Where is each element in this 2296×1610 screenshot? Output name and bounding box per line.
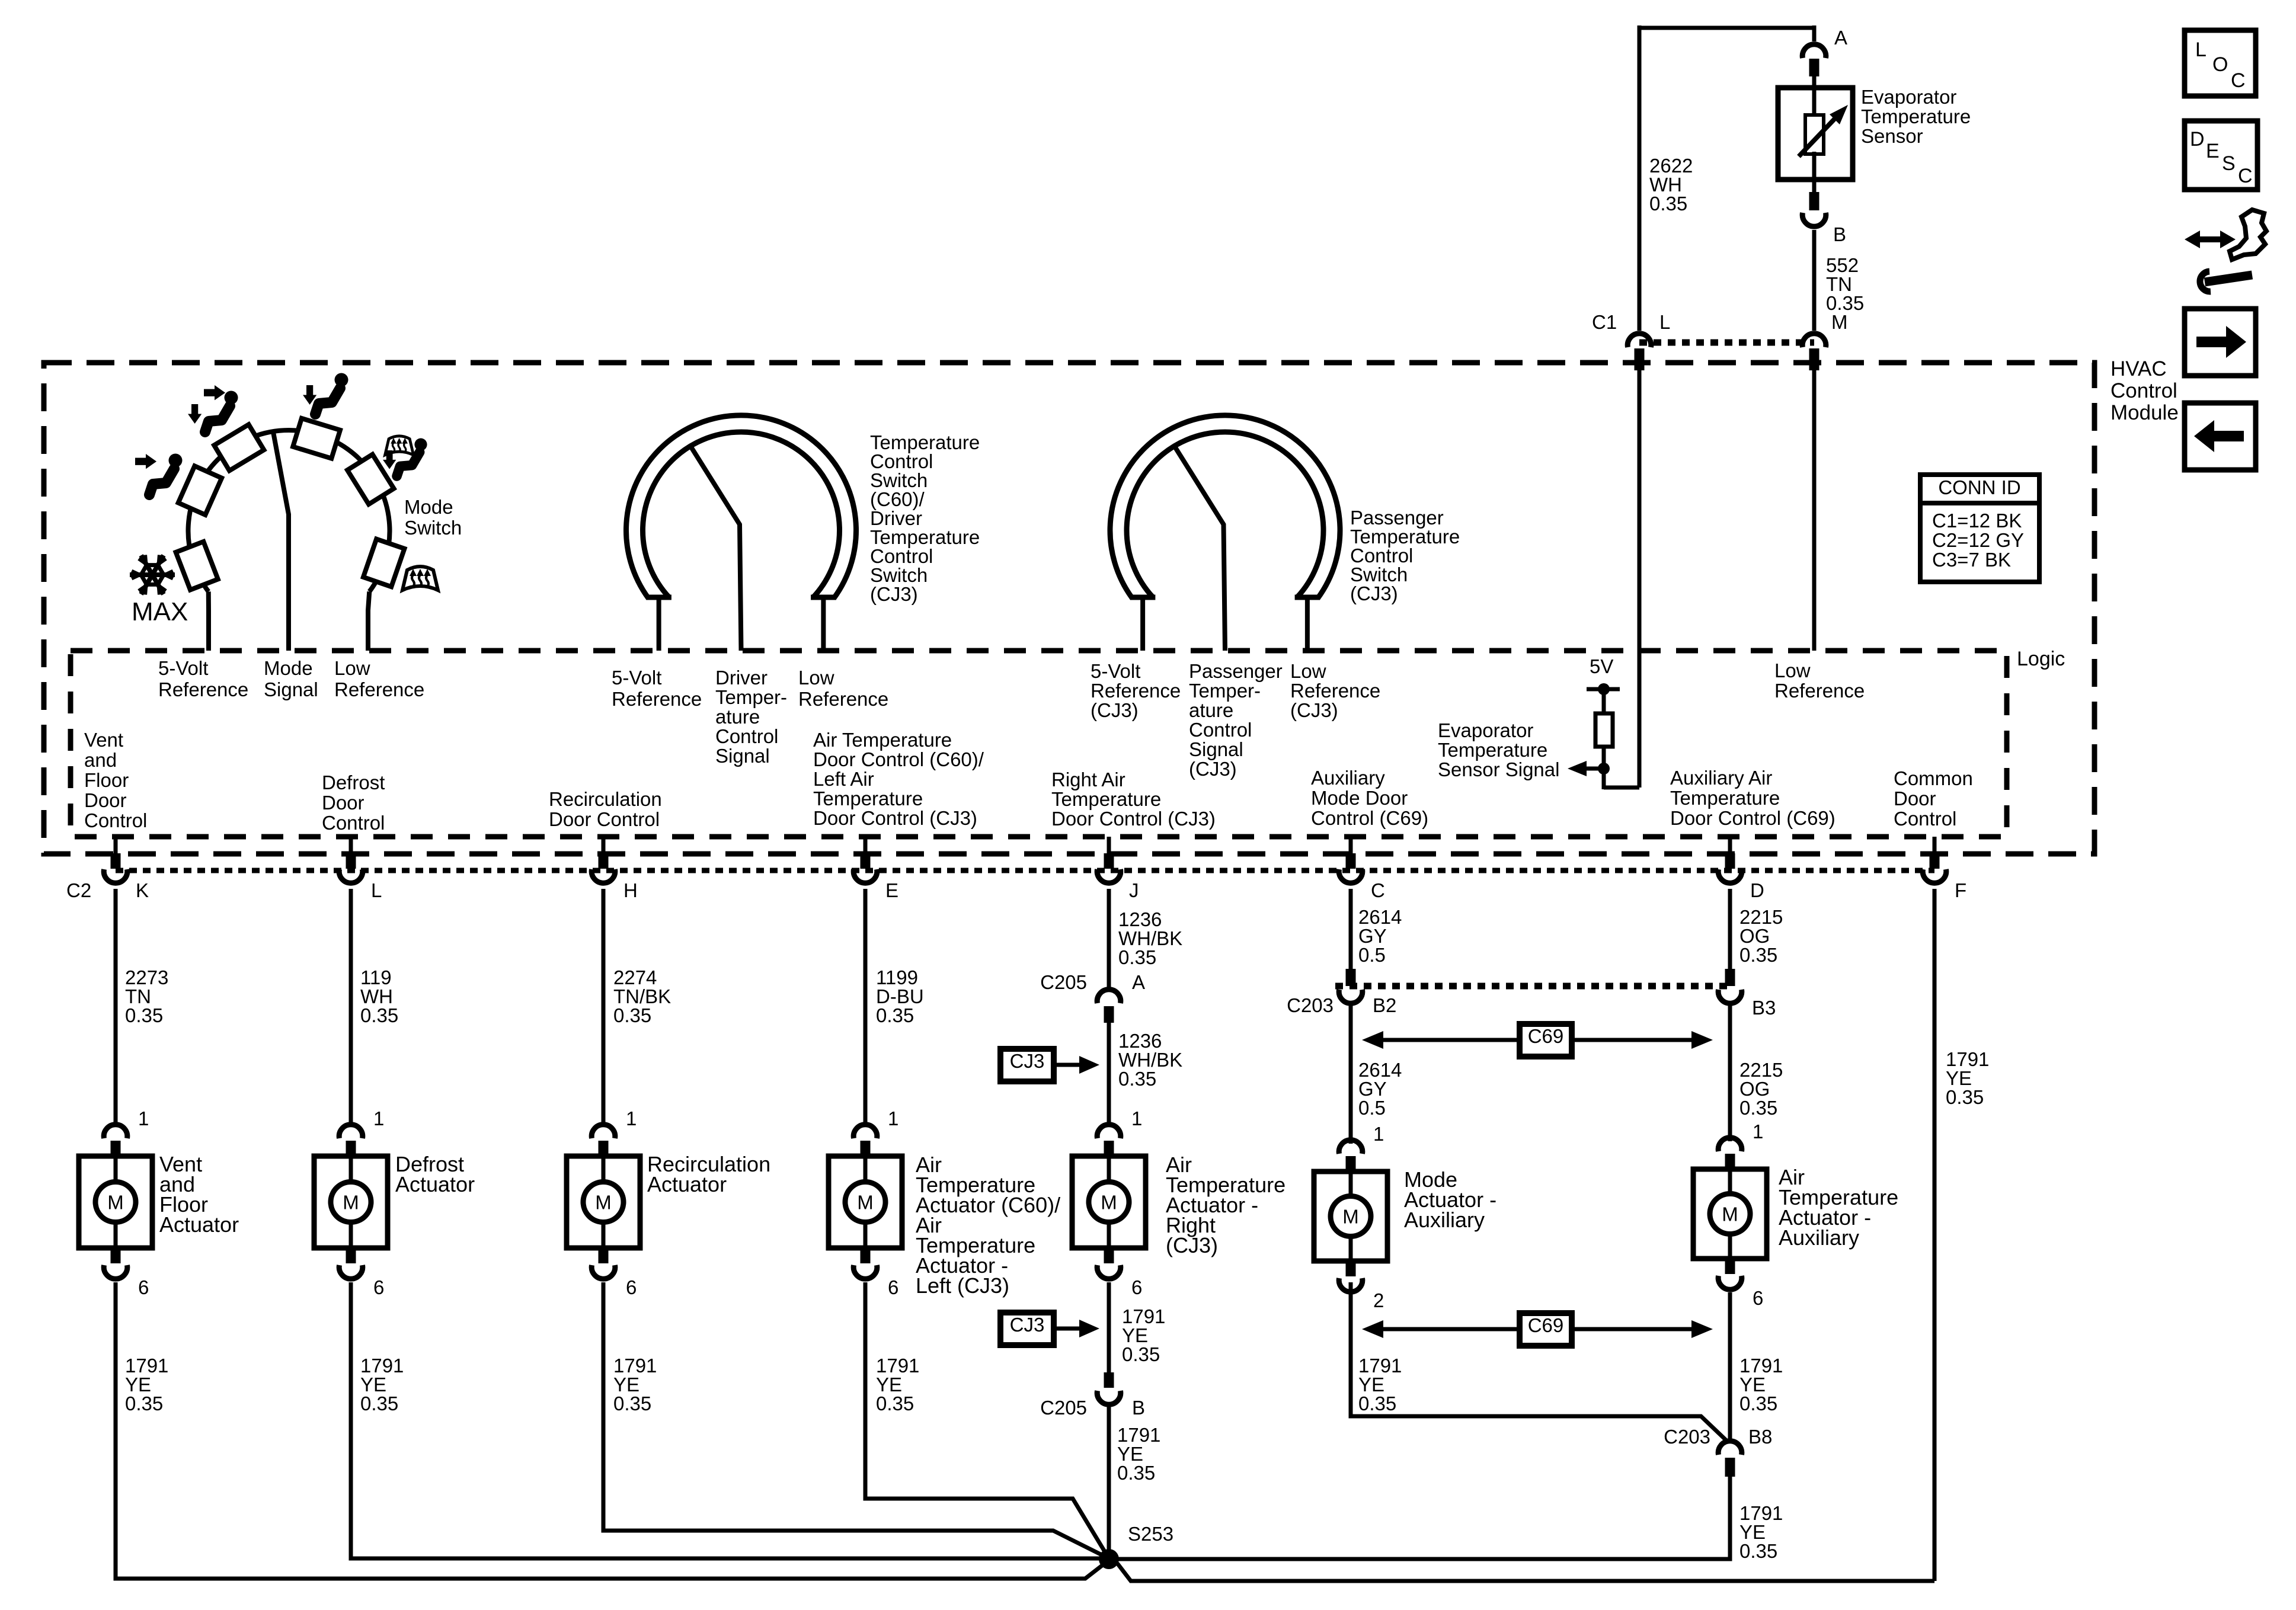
svg-text:C: C — [2238, 165, 2253, 187]
evaporator temperature sensor — [1778, 88, 1853, 180]
motor defrost actuator — [339, 1125, 363, 1138]
svg-text:Control: Control — [1189, 719, 1252, 741]
svg-text:Signal: Signal — [1189, 738, 1243, 760]
svg-text:Control: Control — [322, 812, 385, 834]
svg-text:Auxiliary Air: Auxiliary Air — [1670, 767, 1772, 789]
C1 dotted line — [1639, 340, 1814, 346]
svg-text:0.35: 0.35 — [876, 1393, 914, 1414]
connector pin B — [1812, 180, 1817, 193]
svg-text:0.35: 0.35 — [613, 1393, 651, 1414]
svg-text:6: 6 — [888, 1276, 898, 1298]
svg-text:Signal: Signal — [264, 678, 318, 700]
motor mode actuator auxiliary — [1339, 1140, 1363, 1154]
svg-text:Low: Low — [1774, 660, 1811, 681]
svg-text:H: H — [623, 879, 638, 901]
wire 2215 OG D upper — [1728, 889, 1732, 972]
mode switch 5-volt wire — [206, 591, 211, 651]
svg-text:Evaporator: Evaporator — [1438, 719, 1533, 741]
C2 dotted connector line — [116, 868, 1934, 873]
left arrow icon box — [2185, 403, 2256, 470]
wire 1791 YE to splice — [1107, 1405, 1111, 1559]
svg-text:0.35: 0.35 — [1739, 1393, 1777, 1414]
svg-text:S: S — [2222, 152, 2236, 175]
svg-text:(CJ3): (CJ3) — [1091, 699, 1139, 721]
svg-text:Switch: Switch — [404, 517, 462, 539]
svg-text:E: E — [2206, 140, 2220, 162]
svg-text:C203: C203 — [1287, 994, 1334, 1016]
svg-text:M: M — [857, 1192, 874, 1214]
wire 552 TN — [1812, 230, 1817, 331]
svg-text:1: 1 — [888, 1108, 898, 1129]
svg-text:S253: S253 — [1128, 1523, 1173, 1545]
svg-text:1: 1 — [373, 1108, 384, 1129]
svg-text:(CJ3): (CJ3) — [1350, 582, 1398, 604]
wire 1791 YE H — [603, 1282, 1109, 1558]
wire 1791 YE D to B8 — [1728, 1292, 1732, 1439]
svg-text:Sensor: Sensor — [1861, 125, 1923, 147]
svg-text:Door Control (C69): Door Control (C69) — [1670, 807, 1835, 829]
connector C2 pin D — [1728, 837, 1732, 856]
svg-text:M: M — [107, 1192, 124, 1214]
svg-text:0.35: 0.35 — [360, 1004, 398, 1026]
svg-text:0.35: 0.35 — [1739, 1097, 1777, 1119]
svg-text:MAX: MAX — [132, 597, 188, 626]
svg-text:0.35: 0.35 — [1358, 1393, 1396, 1414]
svg-text:Door: Door — [322, 792, 364, 814]
svg-text:Control: Control — [2110, 379, 2177, 402]
svg-text:Door Control (C60)/: Door Control (C60)/ — [813, 748, 984, 770]
wire 1791 YE J — [1107, 1282, 1111, 1375]
svg-text:6: 6 — [1131, 1276, 1142, 1298]
svg-text:M: M — [1342, 1206, 1359, 1228]
svg-text:Air Temperature: Air Temperature — [813, 729, 952, 751]
svg-text:Control: Control — [1894, 808, 1956, 830]
svg-text:C205: C205 — [1040, 971, 1087, 993]
motor air temperature actuator auxiliary — [1718, 1138, 1742, 1151]
wire 2614 GY C lower — [1349, 1004, 1353, 1144]
svg-text:C1: C1 — [1592, 311, 1617, 333]
svg-text:C205: C205 — [1040, 1397, 1087, 1419]
svg-text:Driver: Driver — [715, 667, 768, 689]
CJ3 reference box 2 — [1000, 1313, 1054, 1345]
svg-text:0.35: 0.35 — [1117, 1462, 1155, 1484]
svg-text:0.35: 0.35 — [1122, 1343, 1160, 1365]
svg-text:CJ3: CJ3 — [1010, 1314, 1045, 1336]
svg-text:0.35: 0.35 — [1118, 1068, 1156, 1090]
wire 119 WH L — [349, 889, 353, 1127]
svg-text:C2=12 GY: C2=12 GY — [1932, 529, 2024, 551]
svg-text:Reference: Reference — [334, 678, 424, 700]
connector C2 pin K — [114, 837, 118, 856]
svg-text:0.35: 0.35 — [1649, 193, 1687, 215]
svg-text:0.35: 0.35 — [1118, 946, 1156, 968]
svg-text:0.5: 0.5 — [1358, 1097, 1386, 1119]
snowflake MAX icon — [130, 555, 175, 595]
svg-text:L: L — [371, 879, 382, 901]
motor recirculation actuator — [591, 1125, 615, 1138]
passenger temperature control switch — [1110, 415, 1340, 598]
svg-text:CJ3: CJ3 — [1010, 1050, 1045, 1072]
connector C203 pin B3 — [1725, 969, 1735, 986]
svg-text:Temperature: Temperature — [1861, 105, 1971, 127]
wire 1791 YE K — [116, 1282, 1109, 1579]
svg-text:Right Air: Right Air — [1051, 769, 1125, 790]
svg-text:6: 6 — [373, 1276, 384, 1298]
svg-text:D: D — [2190, 128, 2205, 151]
CJ3 reference box 1 — [1000, 1049, 1054, 1081]
svg-text:D: D — [1750, 879, 1764, 901]
wire C1-M low reference — [1812, 370, 1817, 651]
svg-text:A: A — [1132, 971, 1145, 993]
svg-text:C69: C69 — [1528, 1025, 1564, 1047]
driver temperature control switch — [626, 415, 856, 598]
C69 reference arrow 1 — [1383, 1038, 1520, 1042]
svg-text:Vent: Vent — [84, 729, 123, 751]
svg-text:C: C — [1371, 879, 1385, 901]
connector C2 pin F — [1933, 837, 1937, 856]
svg-text:C69: C69 — [1528, 1314, 1564, 1336]
svg-text:1: 1 — [1131, 1108, 1142, 1129]
svg-text:0.35: 0.35 — [125, 1393, 163, 1414]
wire C1-L to resistor network — [1638, 370, 1642, 788]
wire 2614 GY C upper — [1349, 889, 1353, 972]
svg-text:Logic: Logic — [2017, 648, 2065, 670]
svg-text:1: 1 — [138, 1108, 149, 1129]
svg-text:C203: C203 — [1664, 1426, 1710, 1448]
wire 2273 TN K — [114, 889, 118, 1127]
svg-text:Reference: Reference — [1774, 680, 1865, 702]
svg-text:L: L — [1659, 311, 1670, 333]
connector C2 pin H — [602, 837, 606, 856]
svg-text:2: 2 — [1373, 1289, 1384, 1311]
connector C2 pin E — [864, 837, 868, 856]
svg-text:F: F — [1955, 879, 1966, 901]
svg-text:Reference: Reference — [158, 678, 248, 700]
svg-text:5-Volt: 5-Volt — [612, 667, 661, 689]
wire 2215 OG D lower — [1728, 1004, 1732, 1141]
svg-text:Auxiliary: Auxiliary — [1404, 1208, 1485, 1232]
svg-text:and: and — [84, 749, 117, 771]
wire 1199 D-BU E — [864, 889, 868, 1127]
svg-text:ature: ature — [1189, 699, 1233, 721]
DESC icon box — [2185, 121, 2257, 190]
svg-text:6: 6 — [626, 1276, 637, 1298]
svg-text:(CJ3): (CJ3) — [870, 583, 918, 605]
svg-text:Temperature: Temperature — [1670, 787, 1780, 809]
svg-text:C2: C2 — [66, 879, 91, 901]
svg-text:L: L — [2195, 39, 2207, 61]
svg-text:Control (C69): Control (C69) — [1311, 807, 1428, 829]
svg-text:0.5: 0.5 — [1358, 944, 1386, 966]
splice S253 — [1099, 1549, 1119, 1569]
wire mode actuator to C203 B8 — [1351, 1282, 1726, 1440]
svg-text:Common: Common — [1894, 767, 1973, 789]
svg-text:1: 1 — [1373, 1123, 1384, 1145]
connector C2 pin L — [349, 837, 353, 856]
wire 1791 YE L — [351, 1282, 1108, 1558]
svg-text:Low: Low — [334, 657, 370, 679]
mode switch arc — [188, 430, 390, 591]
svg-text:B2: B2 — [1373, 994, 1396, 1016]
svg-text:Auxiliary: Auxiliary — [1779, 1225, 1859, 1250]
svg-text:J: J — [1129, 879, 1139, 901]
svg-text:K: K — [136, 879, 149, 901]
mode switch wiper — [273, 432, 289, 651]
svg-text:5-Volt: 5-Volt — [158, 657, 208, 679]
svg-text:Sensor Signal: Sensor Signal — [1438, 758, 1559, 780]
svg-text:5V: 5V — [1590, 655, 1613, 677]
connector pin A — [1812, 25, 1817, 41]
svg-text:C1=12 BK: C1=12 BK — [1932, 510, 2022, 532]
wire to sensor — [1812, 76, 1817, 90]
icon bi-level with arrows — [204, 385, 225, 400]
svg-text:Reference: Reference — [1290, 680, 1380, 702]
wire 1236 WH/BK J upper — [1107, 889, 1111, 988]
svg-text:B: B — [1132, 1397, 1145, 1419]
svg-text:0.35: 0.35 — [1739, 944, 1777, 966]
svg-text:Door Control (CJ3): Door Control (CJ3) — [1051, 808, 1216, 830]
svg-text:Temper-: Temper- — [715, 686, 787, 708]
icon vent-to-face with arrow — [135, 454, 156, 469]
svg-text:Temperature: Temperature — [813, 788, 923, 809]
icon defrost windshield — [402, 566, 438, 590]
svg-text:Reference: Reference — [612, 688, 702, 710]
svg-text:Low: Low — [798, 667, 834, 689]
svg-text:M: M — [1831, 311, 1848, 333]
wire F to splice — [1117, 1563, 1934, 1581]
right arrow icon box — [2185, 309, 2256, 376]
svg-text:Passenger: Passenger — [1189, 660, 1283, 682]
svg-text:Reference: Reference — [1091, 680, 1181, 702]
svg-text:1: 1 — [1753, 1121, 1763, 1142]
wire 1791 YE B8 to splice — [1117, 1477, 1730, 1559]
svg-text:C: C — [2231, 69, 2246, 92]
svg-text:0.35: 0.35 — [1946, 1086, 1984, 1108]
svg-text:Floor: Floor — [84, 769, 129, 791]
svg-text:ature: ature — [715, 706, 760, 728]
svg-text:Signal: Signal — [715, 745, 770, 767]
svg-text:Recirculation: Recirculation — [549, 788, 662, 810]
svg-text:Defrost: Defrost — [322, 772, 385, 793]
svg-text:(CJ3): (CJ3) — [1290, 699, 1338, 721]
svg-text:(CJ3): (CJ3) — [1166, 1233, 1218, 1257]
svg-text:Temperature: Temperature — [1438, 739, 1547, 761]
svg-text:(CJ3): (CJ3) — [1189, 758, 1237, 780]
svg-text:Left Air: Left Air — [813, 768, 874, 790]
svg-text:0.35: 0.35 — [613, 1004, 651, 1026]
wire 1791 YE E — [865, 1282, 1109, 1558]
svg-text:HVAC: HVAC — [2110, 357, 2167, 380]
wire 1791 YE F — [1933, 889, 1937, 1581]
svg-text:Actuator: Actuator — [159, 1212, 239, 1237]
connector C2 pin C — [1349, 837, 1353, 856]
wire evaporator sensor top — [1639, 26, 1814, 30]
svg-text:Mode: Mode — [404, 496, 453, 518]
motor vent and floor actuator — [104, 1125, 127, 1138]
svg-text:6: 6 — [1753, 1287, 1763, 1309]
svg-text:A: A — [1834, 27, 1847, 49]
svg-text:Temper-: Temper- — [1189, 680, 1261, 702]
svg-text:Door Control (CJ3): Door Control (CJ3) — [813, 807, 977, 829]
svg-text:Left (CJ3): Left (CJ3) — [916, 1273, 1009, 1298]
C69 reference arrow 2 — [1383, 1327, 1520, 1331]
svg-text:B3: B3 — [1752, 997, 1776, 1019]
icon floor with down arrow — [303, 385, 316, 405]
wire 1236 WH/BK J lower — [1107, 1023, 1111, 1127]
svg-text:Door Control: Door Control — [549, 808, 660, 830]
svg-text:Door: Door — [1894, 788, 1936, 809]
svg-text:0.35: 0.35 — [1739, 1540, 1777, 1562]
connector C2 pin J — [1107, 837, 1111, 856]
svg-text:Module: Module — [2110, 401, 2179, 424]
mode switch low ref wire — [368, 591, 369, 651]
LOC icon box — [2185, 30, 2256, 96]
svg-text:M: M — [1722, 1204, 1738, 1225]
svg-text:Auxiliary: Auxiliary — [1311, 767, 1385, 789]
HVAC Control Module dashed box — [44, 363, 2094, 854]
svg-text:Low: Low — [1290, 660, 1326, 682]
resistor — [1602, 689, 1606, 715]
wire 2274 TN/BK H — [602, 889, 606, 1127]
svg-text:Control: Control — [715, 725, 778, 747]
svg-text:C3=7 BK: C3=7 BK — [1932, 549, 2011, 571]
svg-text:Actuator: Actuator — [395, 1172, 475, 1196]
svg-text:0.35: 0.35 — [360, 1393, 398, 1414]
svg-text:Actuator: Actuator — [647, 1172, 727, 1196]
node evap sensor signal — [1598, 763, 1610, 774]
svg-text:Reference: Reference — [798, 688, 888, 710]
svg-text:B: B — [1833, 223, 1846, 245]
motor air temperature actuator right — [1097, 1125, 1121, 1138]
svg-text:0.35: 0.35 — [125, 1004, 163, 1026]
svg-text:Mode Door: Mode Door — [1311, 787, 1408, 809]
svg-text:Temperature: Temperature — [1051, 788, 1161, 810]
svg-text:M: M — [595, 1192, 612, 1214]
svg-text:Control: Control — [84, 809, 147, 831]
mode switch position contacts — [176, 542, 218, 590]
svg-text:O: O — [2212, 53, 2228, 76]
C203 dotted line — [1335, 983, 1730, 990]
CONN ID table — [1920, 475, 2039, 582]
svg-text:CONN ID: CONN ID — [1938, 476, 2020, 498]
wrench connector icon — [2194, 236, 2226, 242]
svg-text:Door: Door — [84, 789, 127, 811]
svg-text:Mode: Mode — [264, 657, 313, 679]
svg-text:M: M — [1101, 1192, 1117, 1214]
svg-text:1: 1 — [626, 1108, 637, 1129]
svg-text:E: E — [885, 879, 898, 901]
motor air temperature actuator left — [853, 1125, 877, 1138]
svg-text:Evaporator: Evaporator — [1861, 86, 1956, 108]
svg-text:5-Volt: 5-Volt — [1091, 660, 1140, 682]
svg-text:0.35: 0.35 — [876, 1004, 914, 1026]
svg-text:B8: B8 — [1748, 1426, 1772, 1448]
Logic dashed box — [71, 651, 2007, 837]
svg-text:M: M — [343, 1192, 359, 1214]
svg-text:6: 6 — [138, 1276, 149, 1298]
icon defog windshield person — [385, 436, 414, 455]
